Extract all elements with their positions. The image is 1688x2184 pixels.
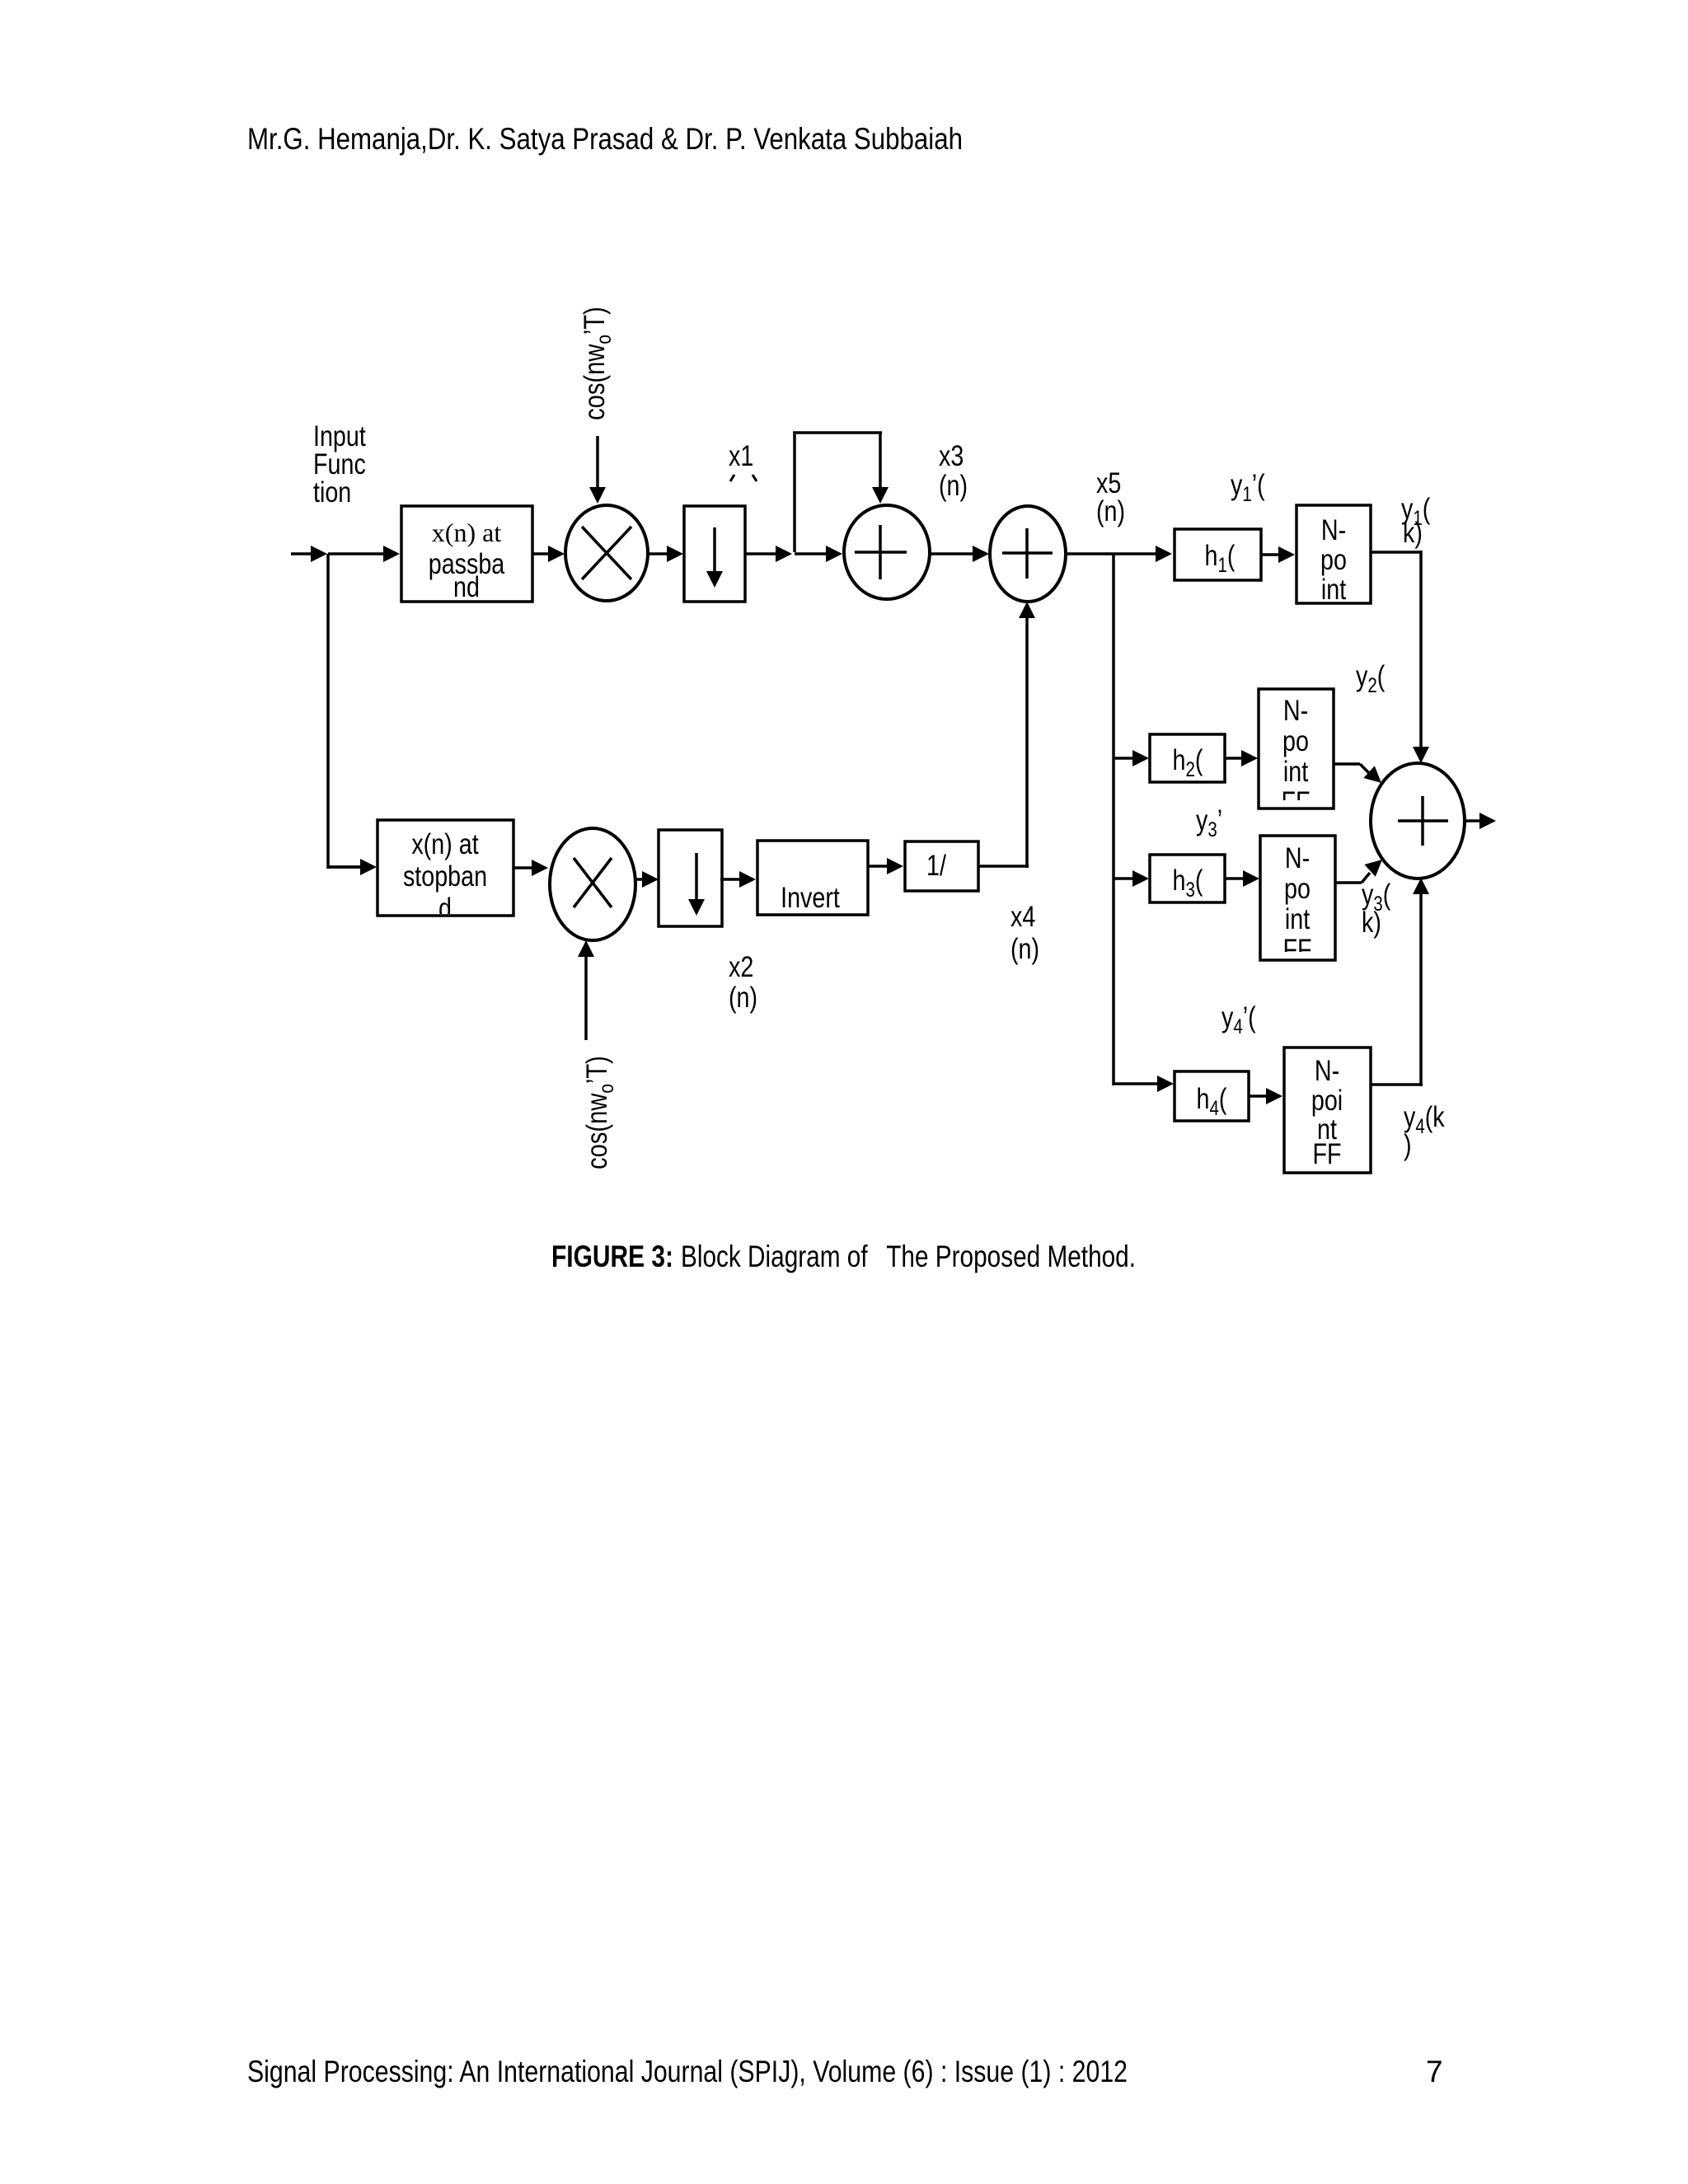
svg-text:int: int [1285,902,1310,935]
svg-text:h3​(: h3​( [1173,864,1203,901]
svg-text:N-: N- [1315,1054,1339,1086]
svg-text:x2: x2 [729,950,753,982]
svg-text:FF: FF [1281,785,1310,818]
svg-text:y1​’(: y1​’( [1231,468,1265,505]
svg-text:nd: nd [453,570,480,602]
svg-text:d: d [438,892,452,924]
svg-text:x3: x3 [939,439,964,471]
svg-text:po: po [1320,543,1347,575]
svg-text:h2​(: h2​( [1173,743,1203,780]
svg-text:cos(nwo​’T): cos(nwo​’T) [580,1056,617,1169]
svg-text:(n): (n) [729,981,757,1013]
svg-text:poi: poi [1311,1084,1343,1116]
svg-text:stopban: stopban [403,860,487,892]
svg-text:N-: N- [1321,513,1346,546]
svg-text:po: po [1284,872,1311,904]
svg-text:k): k) [1362,906,1381,938]
svg-text:Invert: Invert [781,881,840,913]
svg-text:x(n) at: x(n) at [432,518,502,547]
svg-text:x(n) at: x(n) at [411,827,478,860]
svg-text:N-: N- [1285,841,1310,874]
svg-text:(n): (n) [1010,932,1039,964]
svg-text:y4​’(: y4​’( [1221,1001,1256,1038]
svg-text:Mr.G. Hemanja,Dr. K. Satya Pra: Mr.G. Hemanja,Dr. K. Satya Prasad & Dr. … [247,122,963,156]
svg-text:h4​(: h4​( [1197,1082,1227,1119]
svg-text:Block Diagram of The Proposed: Block Diagram of The Proposed Method. [681,1240,1136,1273]
svg-text:): ) [1404,1128,1412,1160]
svg-text:y2​(: y2​( [1356,659,1386,696]
svg-text:int: int [1321,573,1346,605]
svg-text:(n): (n) [939,469,968,501]
svg-text:7: 7 [1426,2055,1443,2088]
svg-text:y3​’: y3​’ [1196,804,1222,841]
svg-text:cos(nwo​’T): cos(nwo​’T) [578,307,615,420]
svg-text:FIGURE 3:: FIGURE 3: [551,1240,673,1273]
svg-text:k): k) [1403,516,1423,548]
svg-text:FF: FF [1312,1137,1341,1169]
svg-text:h1​(: h1​( [1205,539,1236,576]
svg-text:tion: tion [313,476,351,508]
svg-text:(n): (n) [1096,494,1125,527]
svg-text:x1: x1 [729,439,753,471]
svg-text:1/: 1/ [926,849,946,881]
svg-text:int: int [1283,755,1308,787]
svg-text:Signal Processing: An Internat: Signal Processing: An International Jour… [247,2055,1128,2088]
svg-text:x4: x4 [1010,900,1035,932]
svg-text:N-: N- [1283,694,1308,726]
svg-text:po: po [1282,724,1309,757]
